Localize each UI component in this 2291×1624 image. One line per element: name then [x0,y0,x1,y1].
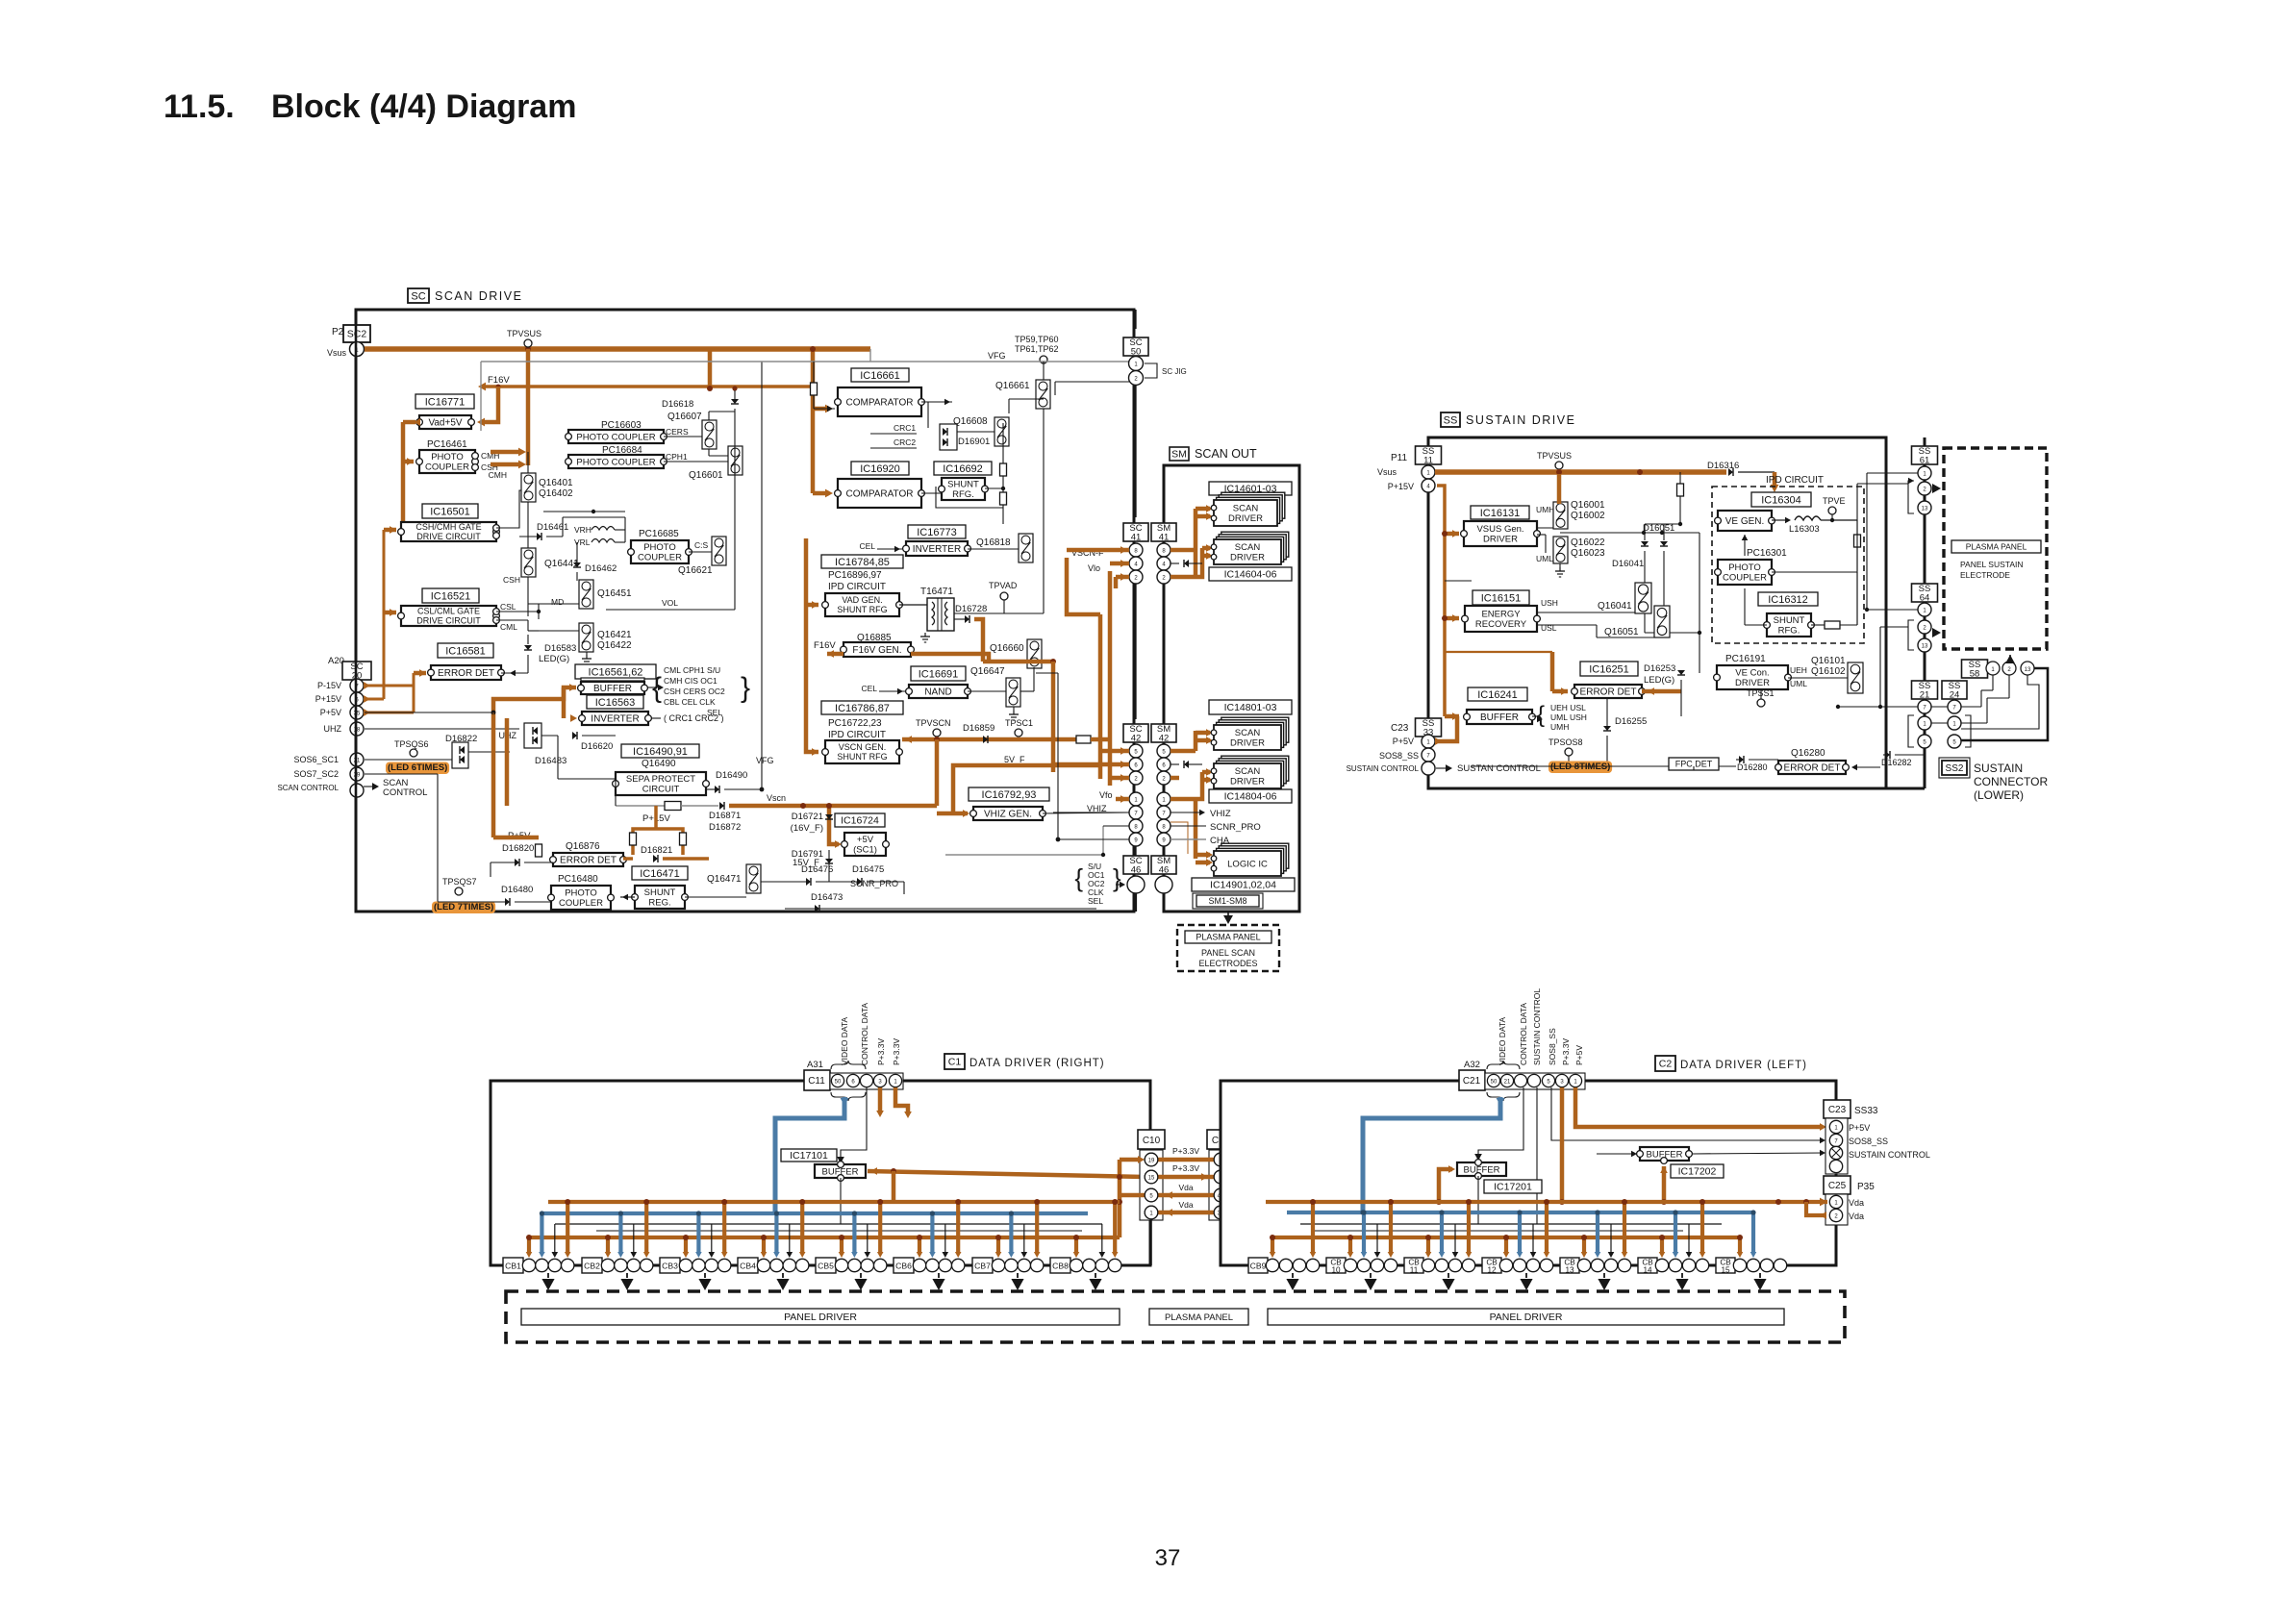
svg-text:ENERGY: ENERGY [1481,610,1521,620]
svg-text:TPVSUS: TPVSUS [1537,451,1572,461]
nand box [909,685,968,698]
VE GEN box [1718,511,1772,531]
label SCNR_PRO [1171,825,1206,827]
connector SS24 [1942,681,1967,699]
svg-text:ERROR DET: ERROR DET [1580,687,1637,698]
wire drops into CB15 [1738,1237,1742,1253]
wire SM vertical bus [1163,465,1166,912]
scan driver stack 2 [1221,532,1289,557]
diode box D16901 [940,424,957,450]
test point TPSQS6 [410,749,417,757]
junction on CMH line [543,511,625,512]
wire sos8 to c23b [1551,1087,1824,1140]
svg-text:IC14801-03: IC14801-03 [1224,702,1277,713]
svg-text:46: 46 [1159,864,1170,875]
IC16786 87 label box [821,701,903,714]
svg-text:Q16608: Q16608 [953,416,988,427]
svg-text:SHUNT RFG: SHUNT RFG [837,752,887,762]
connector SC41 [1123,523,1148,541]
wire orange vertical pair mid [492,712,494,715]
arrow below CB13 [1603,1273,1605,1278]
wire couplers to transistors [664,436,702,437]
svg-text:SHUNT: SHUNT [1774,615,1805,626]
svg-text:15: 15 [1148,1175,1155,1181]
svg-text:CB2: CB2 [584,1262,600,1271]
svg-text:ELECTRODE: ELECTRODE [1960,570,2010,580]
svg-text:COUPLER: COUPLER [638,553,682,563]
svg-text:IC17201: IC17201 [1494,1182,1532,1193]
wire orange SC41 row feeds [1067,548,1129,553]
svg-text:C2: C2 [1659,1059,1673,1070]
svg-text:USH: USH [1541,598,1558,608]
sustain control arrow text [1436,767,1447,769]
connector C20 [1207,1130,1234,1149]
svg-text:P+15V: P+15V [315,694,341,704]
svg-text:DRIVER: DRIVER [1230,738,1265,749]
svg-text:Q16402: Q16402 [539,488,573,499]
wire control data to buffer4 [1478,1087,1523,1157]
connector SC42 [1123,724,1148,742]
svg-text:C25: C25 [1828,1181,1847,1191]
svg-text:TPSQS6: TPSQS6 [394,739,429,749]
svg-text:A32: A32 [1464,1060,1480,1070]
svg-text:P+5V: P+5V [1849,1123,1870,1133]
arrow below CB7 [1017,1273,1019,1278]
svg-text:CB4: CB4 [740,1262,756,1271]
svg-text:CPH1: CPH1 [666,452,688,462]
svg-text:IC16241: IC16241 [1477,689,1518,701]
svg-text:SC JIG: SC JIG [1162,367,1187,376]
svg-text:SOS6_SC1: SOS6_SC1 [293,755,339,764]
svg-text:Vda: Vda [1178,1183,1193,1192]
svg-text:PC16480: PC16480 [558,874,598,885]
connector SC42 lower pins [1129,792,1143,806]
svg-text:IC16581: IC16581 [445,645,486,657]
svg-text:VHIZ: VHIZ [1210,809,1231,819]
IC16773 label box [908,525,966,538]
IC16151 label box [1473,590,1529,605]
arrow into plasma scan [1227,912,1229,915]
IC17101 label box [781,1149,837,1162]
wire CHA gray [1043,428,1045,613]
svg-text:D16473: D16473 [811,892,843,903]
svg-text:Q16647: Q16647 [970,666,1005,677]
svg-text:D16483: D16483 [535,756,566,766]
wires SC42 signal rows [1103,825,1129,827]
svg-text:SUSTAIN DRIVE: SUSTAIN DRIVE [1466,413,1575,427]
svg-text:CMH: CMH [489,470,507,480]
svg-text:P2: P2 [332,327,344,337]
svg-text:IC14804-06: IC14804-06 [1224,791,1277,803]
svg-text:D16821: D16821 [641,845,672,856]
connector SC50 [1123,337,1148,356]
wire drops into CB11 [1426,1237,1430,1253]
svg-text:SUSTAIN: SUSTAIN [1974,762,2023,775]
wire sc20 29 to LED7 route [365,773,438,775]
inductor VRH [592,527,615,531]
svg-text:VFG: VFG [756,756,774,765]
wire orange error det2 right [623,857,633,861]
wire orange riser buffer [892,1171,896,1202]
svg-text:DRIVER: DRIVER [1735,678,1770,688]
svg-text:Q16660: Q16660 [990,643,1024,654]
svg-text:COUPLER: COUPLER [1723,573,1767,584]
svg-text:21: 21 [1920,689,1930,700]
svg-text:UML: UML [1790,679,1807,688]
svg-text:IC16501: IC16501 [430,506,470,517]
svg-text:D16461: D16461 [537,522,568,533]
transistor Q16607 [702,420,717,449]
svg-text:D16728: D16728 [955,604,987,614]
wire sustain mid vertical [1445,580,1472,582]
svg-text:Q16601: Q16601 [689,470,723,481]
svg-text:IC17101: IC17101 [790,1150,828,1162]
wire ss21 bottom to box [1924,749,1926,788]
diode between SM41 [1184,560,1189,567]
comparator box 1 [838,387,921,416]
svg-text:SOS8_SS: SOS8_SS [1849,1137,1888,1146]
wire gate to transistor [496,490,521,528]
arrow below CB3 [704,1273,706,1278]
wires orange C10-C20 rows [1158,1158,1214,1162]
CSL CML gate drive circuit box [401,606,496,626]
svg-text:(LOWER): (LOWER) [1974,788,2024,802]
svg-text:DRIVER: DRIVER [1230,777,1265,787]
transistor Q16441 [521,548,536,577]
svg-text:Vda: Vda [1178,1200,1193,1210]
IC16661 label box [851,368,909,382]
plasma panel sustain dashed box [1944,448,2047,649]
wire coupler to VE GEN [1744,535,1746,556]
svg-text:UHZ: UHZ [324,724,342,734]
VAD GEN shunt box [825,593,899,616]
IC16521 label box [422,588,479,603]
IC16792 93 label box [969,787,1049,801]
svg-text:PHOTO: PHOTO [1728,562,1761,573]
IC16691 label box [911,666,966,681]
svg-text:IC16792,93: IC16792,93 [982,789,1037,801]
svg-text:Q16023: Q16023 [1571,548,1605,559]
svg-text:C1: C1 [948,1057,962,1068]
IC16251 label box [1580,662,1638,676]
wire orange riser to SC41 [983,660,1053,664]
svg-text:PHOTO: PHOTO [565,888,597,899]
comparator box 2 [838,479,921,508]
svg-text:RFG.: RFG. [1778,626,1800,637]
svg-text:UMH: UMH [1536,505,1554,514]
wire Q16607 top hook [708,412,710,420]
wire orange SC42 feeds [1100,749,1129,754]
svg-text:IC16490,91: IC16490,91 [633,746,688,758]
wire orange TPVSUS drop [526,349,531,465]
wire drops into CB8 [1074,1237,1078,1253]
svg-text:P+15V: P+15V [1388,482,1414,491]
IC14901 label box [1192,878,1295,891]
wire orange CSH arrow [491,462,519,467]
wire orange elbow to Vad+5V [482,387,498,422]
connector SM41 [1151,523,1176,541]
svg-text:CEL: CEL [861,684,877,693]
wire drops into CB6 [918,1237,921,1253]
diodes D16051 [1641,541,1649,546]
svg-text:Q16280: Q16280 [1791,748,1825,759]
svg-text:T16471: T16471 [920,587,953,597]
arrow up to plasma from ss58 [2005,655,2015,663]
svg-text:CB5: CB5 [818,1262,834,1271]
svg-text:VHIZ GEN.: VHIZ GEN. [984,810,1032,820]
svg-text:61: 61 [1920,455,1930,465]
photo coupler PC16301 [1718,560,1772,585]
plasma panel label box bottom [1149,1309,1248,1325]
svg-text:DRIVE CIRCUIT: DRIVE CIRCUIT [416,616,481,626]
svg-text:P+3.3V: P+3.3V [1172,1163,1199,1173]
F16V GEN box [843,642,911,657]
wire orange TPVSUS drop to Q16001 [1557,474,1562,504]
svg-text:IC16691: IC16691 [919,668,959,680]
wire into sepa [557,736,559,779]
wire error det to D16583 [501,672,528,674]
transistor Q16608 [994,417,1009,446]
svg-text:Q16022: Q16022 [1571,537,1605,548]
inductor L16303 [1795,516,1821,520]
svg-text:Q16621: Q16621 [678,565,713,576]
VE Con DRIVER box [1717,665,1788,689]
svg-text:PC16191: PC16191 [1725,654,1766,664]
wires ss21 ss24 mid [1931,706,1948,708]
wire orange error det feed [419,669,426,677]
arrow into plasma sustain 2 [1932,628,1941,637]
wire Vscn line [616,805,665,807]
wire orange vad feed [812,601,818,609]
panel driver label box left [1268,1309,1784,1325]
svg-text:SOS8_SS: SOS8_SS [1379,751,1419,761]
svg-text:SCNR_PRO: SCNR_PRO [850,879,898,888]
test point TPSQS7 [455,887,463,895]
svg-text:PHOTO: PHOTO [643,542,676,553]
svg-text:SS33: SS33 [1854,1106,1878,1116]
svg-text:CMH CIS OC1: CMH CIS OC1 [664,676,718,686]
transistor Q16661 [1036,380,1050,409]
arrow below CB15 [1759,1273,1761,1278]
svg-text:COUPLER: COUPLER [559,898,603,909]
C1 DATA DRIVER RIGHT box [491,1081,1150,1265]
svg-text:DRIVER: DRIVER [1228,513,1263,524]
SC JIG bracket [1145,363,1157,378]
svg-text:SCAN: SCAN [1233,504,1259,514]
wire orange P15V riser [1437,486,1445,716]
svg-text:NAND: NAND [924,687,951,698]
wire orange buffer to C10 [870,1167,877,1175]
svg-text:TPSS1: TPSS1 [1747,688,1775,698]
wire orange comparator feed [811,349,816,493]
wire orange main top Vsus rail [365,346,870,352]
IC14804-06 label box [1209,789,1292,803]
wire control data to buffer [841,1087,867,1160]
connector SS61 [1912,446,1938,464]
svg-text:F16V: F16V [488,375,510,386]
svg-text:IC16563: IC16563 [595,697,636,709]
inverter box scan [582,712,648,725]
wire orange bus 2 right section [528,1236,1120,1239]
svg-text:DRIVE CIRCUIT: DRIVE CIRCUIT [416,532,481,541]
svg-text:{: { [1537,702,1545,728]
wire orange SM41 to drivers [1171,548,1196,553]
svg-text:64: 64 [1920,592,1930,603]
svg-text:IC16471: IC16471 [640,868,680,880]
svg-text:58: 58 [1970,668,1980,679]
svg-text:D16462: D16462 [585,563,617,574]
IC16241 label box [1468,687,1527,701]
transistor Q16471 [746,864,761,893]
highlight LED 7TIMES [432,902,495,914]
svg-text:CRC1: CRC1 [894,423,916,433]
wire orange F16V gen out [911,654,989,662]
svg-text:C10: C10 [1143,1136,1161,1146]
connector SC46 [1123,856,1148,874]
svg-text:F16V GEN.: F16V GEN. [852,645,901,656]
wire P+5V rail to inverter area [365,712,493,713]
svg-text:(16V_F): (16V_F) [791,823,823,834]
wire orange inverter feed [570,714,577,722]
test point TPVAD [1000,592,1008,600]
svg-text:IC16771: IC16771 [425,396,466,408]
ground below Q16647 [1013,711,1015,714]
IC16692 label box [934,462,992,475]
svg-text:CERS: CERS [666,427,689,437]
wire drops into CB7 [996,1237,1000,1253]
wire orange F16V rail [483,385,813,388]
svg-text:CSH/CMH GATE: CSH/CMH GATE [415,522,481,532]
svg-text:VE Con.: VE Con. [1735,668,1769,679]
svg-text:IC16692: IC16692 [943,463,983,475]
svg-text:SS: SS [1444,414,1458,426]
ground below Q16422 [586,655,588,659]
svg-text:CONTROL DATA: CONTROL DATA [860,1003,869,1065]
test point TPSOS8 [1565,748,1573,756]
svg-text:D16041: D16041 [1612,559,1644,569]
wire orange gate2 arrows [390,609,396,616]
C2 section tag [1655,1056,1675,1071]
svg-text:PC16896,97: PC16896,97 [828,570,882,581]
svg-text:D16721: D16721 [792,812,823,822]
svg-text:Q16451: Q16451 [597,588,632,599]
wire orange logic feed [1171,822,1188,854]
svg-text:SUSTAN CONTROL: SUSTAN CONTROL [1457,763,1541,774]
svg-text:CSH: CSH [503,575,520,585]
svg-text:42: 42 [1131,733,1142,743]
IC16771 label box [415,394,474,409]
arrow below CB10 [1370,1273,1372,1278]
wire orange bus 1 left section [1266,1200,1827,1204]
wire into buffer5 [1597,1153,1636,1155]
svg-text:CB1: CB1 [505,1262,521,1271]
wire blue video data right [775,1097,844,1213]
wire orange P5V to C23b [1575,1087,1822,1127]
svg-text:D16820: D16820 [502,843,534,854]
svg-text:Q16471: Q16471 [707,874,742,885]
svg-text:REG.: REG. [648,898,670,909]
svg-text:D16282: D16282 [1881,758,1912,767]
svg-text:CB9: CB9 [1250,1262,1267,1271]
svg-text:(LED 7TIMES): (LED 7TIMES) [434,902,493,912]
svg-text:Vad+5V: Vad+5V [428,418,462,429]
svg-text:IC16661: IC16661 [860,370,900,382]
svg-text:}: } [1113,863,1121,892]
svg-text:SCAN CONTROL: SCAN CONTROL [277,784,339,792]
wire vad to transformer [899,604,927,606]
svg-text:DRIVER: DRIVER [1230,553,1265,563]
svg-text:C11: C11 [808,1076,825,1087]
connector SM42 lower pins [1157,792,1171,806]
wire Q16601 to VOL [734,390,736,399]
svg-text:Q16001: Q16001 [1571,500,1605,511]
IC17202 label box [1671,1164,1724,1178]
IPD circuit dashed box [1712,487,1864,643]
svg-text:P+3.3V: P+3.3V [892,1038,901,1065]
bracket video data C21 [1487,1061,1520,1069]
svg-text:Q16401: Q16401 [539,478,573,488]
svg-text:UEH: UEH [1790,665,1807,675]
svg-text:CONTROL: CONTROL [383,787,427,798]
svg-text:Q16490: Q16490 [642,759,676,769]
photo coupler PC16603 [568,430,664,443]
wire orange sustain top rail [1435,469,1726,475]
svg-text:D16871: D16871 [709,811,741,821]
svg-text:COUPLER: COUPLER [425,462,469,473]
svg-text:D16475: D16475 [852,864,884,875]
transistor Q16051 [1654,606,1670,637]
svg-text:A31: A31 [807,1060,823,1070]
wire VFG vertical [761,362,763,789]
svg-text:21: 21 [1504,1080,1511,1086]
svg-text:14: 14 [1643,1266,1652,1275]
IC16920 label box [851,462,909,475]
wire orange error det sustain [1561,687,1568,695]
svg-text:Q16876: Q16876 [566,841,600,852]
VSUS Gen DRIVER box [1464,521,1537,546]
arrow below CB11 [1448,1273,1449,1278]
wire comparator2 out [921,492,942,494]
test point TPVSUS sustain [1555,462,1563,469]
wire sc46 stub [1135,846,1137,856]
svg-text:PLASMA PANEL: PLASMA PANEL [1196,933,1260,942]
svg-text:P+3.3V: P+3.3V [876,1038,886,1065]
svg-text:Q16002: Q16002 [1571,511,1605,521]
svg-text:ELECTRODES: ELECTRODES [1198,959,1257,968]
svg-text:(LED 6TIMES): (LED 6TIMES) [388,762,447,773]
wire drops into CB3 [684,1237,688,1253]
svg-text:UML USH: UML USH [1550,712,1587,722]
svg-text:SEL: SEL [1088,896,1103,906]
wire orange c11 p33 stubs [878,1087,883,1112]
arrow below CB12 [1525,1273,1527,1278]
resistor right of shunt2 [1825,621,1840,629]
svg-text:SOS7_SC2: SOS7_SC2 [293,769,339,779]
svg-text:SS2: SS2 [1946,763,1964,774]
svg-text:PANEL SCAN: PANEL SCAN [1201,948,1255,958]
wire sustain control line [1472,765,1736,767]
connector C10 [1138,1130,1165,1149]
svg-text:CRC2: CRC2 [894,437,916,447]
transistor Q16001 Q16002 [1553,502,1568,529]
wire orange from transformer [974,619,983,662]
ENERGY RECOVERY box [1465,606,1537,632]
svg-text:24: 24 [1950,689,1960,700]
connector SS64 [1912,584,1938,602]
svg-text:BUFFER: BUFFER [593,684,632,694]
wire orange to +5V SC1 [829,806,839,844]
svg-text:Q16041: Q16041 [1598,601,1632,612]
